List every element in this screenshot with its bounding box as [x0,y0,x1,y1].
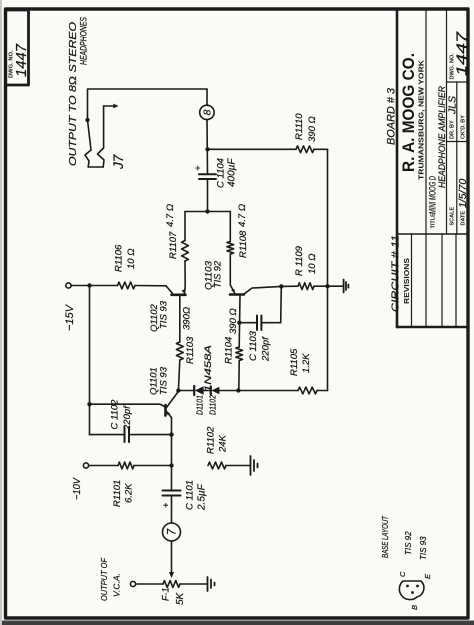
wire riser: D1102 to R1104 node [219,390,238,392]
wire: node7 to C1101 [171,497,173,524]
svg-text:TITLE: TITLE [431,213,437,229]
svg-text:390 Ω: 390 Ω [228,308,239,334]
junction rail/-15V/R1106 [87,283,91,287]
resistor R1108 4.7 ohm rail [229,212,231,242]
junction riser/R1104 rail [236,388,240,392]
svg-text:4.7 Ω: 4.7 Ω [237,204,248,227]
svg-text:TIS 93: TIS 93 [159,366,170,395]
svg-text:TIS 92: TIS 92 [213,260,224,288]
junction R1109/bottom rail/ground [325,284,329,288]
svg-text:R1108: R1108 [238,230,249,258]
wire: rail to Q1101 base [90,404,165,406]
svg-text:B: B [410,605,419,610]
svg-text:TIS 93: TIS 93 [419,536,428,560]
junction jack tip contact [85,118,89,122]
svg-text:24K: 24K [218,434,229,453]
capacitor C1101 2.5uF [163,495,181,497]
svg-text:JLS: JLS [447,96,459,115]
svg-text:R1105: R1105 [289,348,300,376]
svg-text:C 1103: C 1103 [248,330,259,361]
resistor R1102 24K [208,462,226,469]
svg-text:D1101: D1101 [195,395,205,415]
svg-text:−15V: −15V [64,303,76,331]
wire: C1104 to node 8 [206,120,209,175]
svg-text:R 1109: R 1109 [294,245,305,276]
svg-text:4.7 Ω: 4.7 Ω [165,204,176,227]
ground below pot [207,577,209,591]
svg-text:TRUMANSBURG, NEW YORK: TRUMANSBURG, NEW YORK [417,59,426,180]
svg-text:10 Ω: 10 Ω [126,249,137,269]
junction rail/Q1101 base [87,402,91,406]
title block rows [425,9,427,234]
resistor R1103 390 ohm rail [178,360,179,391]
svg-text:390 Ω: 390 Ω [307,116,318,142]
svg-text:+: + [161,503,171,508]
svg-text:1447: 1447 [13,43,30,77]
svg-text:F·1: F·1 [161,588,171,602]
svg-text:C: C [398,571,407,577]
top feed rail [89,286,91,435]
jack plug arrow [104,105,114,107]
svg-text:390Ω: 390Ω [182,307,193,330]
svg-text:TIS 92: TIS 92 [404,531,413,555]
ground at bottom rail [328,285,344,287]
svg-text:C 1101: C 1101 [185,480,196,510]
svg-text:MINI MOOG D: MINI MOOG D [428,176,438,214]
svg-text:REVISIONS: REVISIONS [404,258,411,304]
pot wiper arrow from node 7 [171,541,173,574]
svg-text:J7: J7 [111,154,126,170]
svg-text:E: E [423,573,432,579]
junction R1104 rail/C1103 [237,321,241,325]
ground below R1102 [250,456,252,475]
title block outline [396,9,399,327]
svg-text:R1103: R1103 [185,336,196,364]
svg-text:SCALE: SCALE [450,207,456,226]
svg-text:R1101: R1101 [112,480,123,507]
svg-text:OUTPUT TO 8Ω STEREO: OUTPUT TO 8Ω STEREO [68,22,79,166]
scan edge artifacts [0,621,474,625]
svg-text:DR. BY: DR. BY [450,120,456,139]
svg-text:OUTPUT OF: OUTPUT OF [99,557,109,601]
svg-text:220pf: 220pf [122,405,133,431]
svg-text:TIS 93: TIS 93 [159,300,170,329]
svg-text:V.C.A.: V.C.A. [112,573,122,597]
svg-text:BOARD # 3: BOARD # 3 [386,87,398,145]
resistor R1106 10 ohm (base feed) [90,285,118,287]
resistor R1109 10 ohm [281,285,298,287]
node: Q1101 collector / R1103 / D1101 [176,388,180,392]
svg-text:R1106: R1106 [114,244,125,272]
-15V supply terminal [66,283,71,288]
wire: jack riser [88,89,208,120]
svg-text:CK'D. BY: CK'D. BY [461,115,467,139]
svg-text:+: + [193,165,204,171]
svg-text:CIRCUIT # 11: CIRCUIT # 11 [390,235,402,312]
transistor can bottom view [399,581,424,600]
wire: C1101 to Q1101 emitter (input bus) [171,418,173,491]
wire: Q1103 base down to R1109 [244,286,281,294]
svg-text:HEADPHONES: HEADPHONES [79,17,89,65]
capacitor C1103 220pf [239,322,256,324]
-10V supply terminal [83,463,88,468]
corner drawing-number box [6,10,29,85]
svg-text:BASE LAYOUT: BASE LAYOUT [381,515,390,558]
node 8 (output) [200,105,214,119]
node 7 (input from VCA) [163,523,181,541]
jack body join [88,166,103,168]
capacitor C1102 220pf [90,434,125,436]
svg-text:400µF: 400µF [227,158,238,187]
transistor Q1102 TIS93 [172,293,186,296]
resistor R1104 390 ohm rail (collector) [238,296,241,348]
junction Q1103 base/R1109/C1103 [279,284,283,288]
pot F-1 5K track [136,583,163,585]
jack J7 tip spring contact [85,120,91,167]
junction output rail/R1110 [205,147,209,151]
junction bus/C1102 [169,432,173,436]
resistor R1101 6.2K [89,465,119,467]
svg-text:HEADPHONE AMPLIFIER: HEADPHONE AMPLIFIER [437,86,447,188]
resistor R1110 390 ohm (right riser) [208,148,297,150]
transistor Q1101 TIS93 [164,405,167,416]
svg-text:R1110: R1110 [294,113,305,140]
junction join-bar/output rail [205,209,209,213]
svg-text:8: 8 [202,109,214,115]
svg-text:R1102: R1102 [206,426,217,454]
svg-text:1.2K: 1.2K [301,353,312,373]
svg-text:7: 7 [167,528,179,535]
bottom rail [327,149,329,390]
wire: node 8 to jack riser [206,89,208,105]
svg-text:2.5µF: 2.5µF [197,483,208,511]
revisions table [397,233,467,235]
diode D1102 [210,387,212,395]
svg-text:R1104: R1104 [224,337,235,364]
svg-text:5K: 5K [175,591,186,605]
wire riser: node to D1101 [178,390,194,392]
svg-text:−10V: −10V [72,477,83,500]
transistor Q1103 TIS92 [230,293,244,296]
svg-text:DATE: DATE [461,211,467,226]
svg-text:C 1104: C 1104 [216,158,227,188]
svg-text:6.2K: 6.2K [124,483,135,503]
resistor R1105 1.2K [298,387,317,394]
output rail to C1104 [207,179,209,212]
jack J7 ring contact [98,106,105,167]
svg-text:1/5/70: 1/5/70 [457,179,469,208]
pot input terminal [130,581,135,586]
diode D1101 1N458A [193,386,195,395]
svg-text:1447: 1447 [455,31,471,76]
svg-text:1N458A: 1N458A [203,345,214,392]
svg-text:D1102: D1102 [208,395,218,415]
wire riser: node to R1105 [239,390,298,392]
svg-text:R1107: R1107 [168,231,179,259]
junction bus/R1101/R1102 [169,463,173,467]
capacitor C1104 400uF [199,178,216,180]
svg-text:R. A. MOOG CO.: R. A. MOOG CO. [400,53,418,172]
push-pull join bar [185,211,230,213]
svg-text:220pf: 220pf [261,336,272,362]
resistor R1107 4.7 ohm (emitter rail) [184,261,186,286]
svg-text:10 Ω: 10 Ω [307,254,318,274]
